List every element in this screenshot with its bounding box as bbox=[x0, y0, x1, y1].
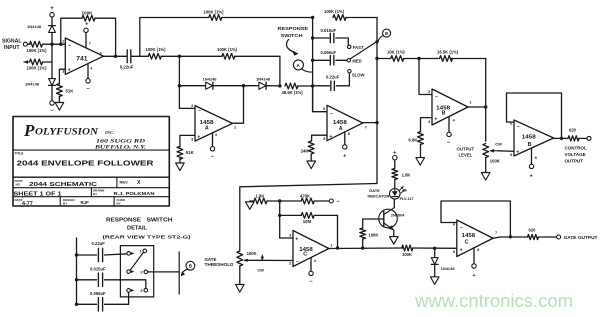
wire detail bus bbox=[76, 238, 78, 304]
wire pot to ground bbox=[485, 158, 487, 173]
wire base bbox=[363, 218, 384, 220]
pin 6 label U3B bbox=[510, 121, 520, 130]
svg-text:10M: 10M bbox=[303, 219, 312, 224]
wire pin3 to 6.8K bbox=[421, 118, 433, 132]
node hysteresis join bbox=[336, 246, 339, 249]
pin 2 label 1458A bbox=[191, 104, 201, 115]
logo address bbox=[94, 139, 147, 150]
wire 470K to terminal bbox=[314, 200, 329, 202]
wire up to top feedback line bbox=[140, 18, 209, 57]
node feedback junction bbox=[417, 57, 420, 60]
wire 16.5K to bus C bbox=[451, 58, 486, 60]
node X2 bbox=[278, 214, 281, 217]
svg-text:100K (1%): 100K (1%) bbox=[27, 66, 48, 71]
terminal gate output bbox=[557, 235, 561, 239]
label CHKD BY bbox=[117, 198, 126, 206]
resistor 10K (1%) bbox=[387, 49, 405, 61]
label DESIGN BY bbox=[63, 198, 75, 206]
svg-text:24K: 24K bbox=[301, 148, 310, 153]
title block rev divider bbox=[116, 177, 118, 188]
capacitor 0.22uF coupling bbox=[120, 50, 134, 70]
wire to 10M bbox=[280, 214, 302, 216]
svg-text:100K: 100K bbox=[402, 252, 412, 257]
svg-text:100K (1%): 100K (1%) bbox=[217, 47, 238, 52]
node bus cap2 bbox=[311, 59, 314, 62]
label REV X bbox=[120, 179, 142, 186]
svg-text:THRESHOLD: THRESHOLD bbox=[205, 262, 234, 267]
svg-text:R.J. POLKMAN: R.J. POLKMAN bbox=[114, 191, 155, 196]
resistor 6.8K to ground bbox=[408, 132, 423, 145]
node envelope bus bbox=[375, 121, 378, 124]
svg-text:FAST: FAST bbox=[353, 45, 364, 50]
wire pin2 first rectifier bbox=[179, 107, 195, 109]
power -15V lower clamp bbox=[50, 86, 54, 115]
op-amp U4B 1458 C gate bbox=[457, 220, 493, 257]
wire cap to SLOW contact bbox=[336, 73, 349, 86]
svg-text:+: + bbox=[50, 6, 54, 12]
svg-text:1: 1 bbox=[470, 101, 472, 105]
title block date dividers bbox=[60, 197, 114, 206]
svg-text:2: 2 bbox=[289, 262, 291, 266]
svg-text:1.8K: 1.8K bbox=[256, 193, 265, 198]
resistor 470K to -15 bbox=[300, 193, 314, 204]
svg-text:3: 3 bbox=[289, 233, 291, 237]
svg-text:CONTROL: CONTROL bbox=[565, 146, 587, 151]
resistor 1.8K threshold ref bbox=[254, 193, 267, 204]
svg-text:7: 7 bbox=[365, 126, 367, 130]
wire node to lower resistor row bbox=[51, 44, 53, 62]
wire rectifier input down bbox=[178, 56, 180, 108]
svg-text:8: 8 bbox=[477, 248, 479, 252]
node B circle top bbox=[378, 29, 390, 41]
svg-text:C: C bbox=[465, 240, 469, 246]
svg-text:2: 2 bbox=[191, 104, 193, 108]
svg-text:−: − bbox=[460, 225, 463, 231]
label RESPONSE SWITCH bbox=[278, 26, 309, 38]
wire row1 bbox=[77, 254, 97, 256]
diode 1N4148 upper clamp bbox=[27, 24, 55, 32]
pin 2 label 1458B bbox=[428, 90, 438, 100]
wire down to diode node bbox=[279, 56, 281, 86]
svg-text:INC.: INC. bbox=[104, 130, 114, 135]
svg-text:+: + bbox=[295, 236, 298, 242]
wire output to bus B bbox=[363, 122, 377, 124]
label DATE bbox=[15, 198, 23, 202]
switch contact 3L bbox=[127, 289, 134, 293]
ground below 24K bbox=[307, 154, 316, 169]
svg-text:B: B bbox=[442, 111, 446, 117]
svg-text:741: 741 bbox=[76, 55, 88, 62]
svg-text:1: 1 bbox=[234, 125, 236, 129]
text R J POLKMAN bbox=[114, 191, 155, 196]
ground below 6.8K bbox=[416, 144, 425, 165]
svg-text:−: − bbox=[517, 124, 520, 130]
svg-text:10K (1%): 10K (1%) bbox=[387, 49, 405, 54]
wire nodeX to 470K bbox=[280, 200, 302, 202]
diode 1N4148 rectifier D4 bbox=[256, 76, 271, 89]
resistor 620 gate bbox=[528, 227, 539, 239]
resistor 1.8K LED bbox=[392, 169, 411, 189]
wire row2 bbox=[77, 279, 97, 281]
svg-text:VOLTAGE: VOLTAGE bbox=[565, 152, 586, 157]
wire bus to pin6 bbox=[313, 86, 327, 112]
svg-text:5: 5 bbox=[453, 250, 455, 254]
power +15 LED bbox=[393, 150, 398, 168]
svg-text:4-77: 4-77 bbox=[22, 201, 33, 207]
wire 10M to output bbox=[314, 215, 337, 248]
svg-text:3: 3 bbox=[62, 70, 64, 74]
wire feedback U4B bbox=[441, 201, 510, 237]
svg-text:620: 620 bbox=[529, 227, 537, 232]
resistor 100K gate series bbox=[402, 245, 413, 257]
capacitor 0.22uF SLOW bbox=[326, 75, 340, 91]
resistor 620 output bbox=[568, 127, 579, 141]
title block sheet row line bbox=[13, 196, 169, 198]
node 741 output junction bbox=[114, 55, 117, 58]
marker CW gate pot bbox=[257, 255, 264, 273]
svg-text:51K: 51K bbox=[186, 150, 195, 155]
switch contact 3R bbox=[140, 288, 147, 293]
resistor 24K to ground bbox=[301, 141, 314, 154]
svg-text:BUFFALO, N.Y.: BUFFALO, N.Y. bbox=[94, 146, 147, 151]
svg-text:100K: 100K bbox=[82, 11, 94, 16]
wire to node bbox=[161, 55, 179, 57]
wire pin5 to 24K bbox=[312, 135, 327, 141]
svg-text:0.015uF: 0.015uF bbox=[321, 28, 337, 33]
wire output to bus C bbox=[468, 106, 486, 108]
wire 741 output bbox=[103, 55, 126, 57]
label TITLE bbox=[15, 151, 24, 155]
diode 1N4148 lower clamp bbox=[25, 79, 55, 87]
resistor 10M hysteresis bbox=[301, 213, 314, 225]
svg-text:−: − bbox=[296, 259, 299, 265]
svg-text:−: − bbox=[337, 199, 340, 205]
svg-text:3: 3 bbox=[428, 120, 430, 124]
wire U4B output bbox=[493, 237, 528, 238]
label OUTPUT LEVEL bbox=[457, 146, 475, 157]
switch wiper blade bbox=[350, 42, 376, 59]
resistor 100K (1%) input series bbox=[27, 41, 48, 53]
wire top feedback B bbox=[346, 17, 377, 19]
pin 8 supply U3B bbox=[529, 148, 536, 179]
capacitor 0.015uF FAST bbox=[321, 28, 337, 43]
title block drawn divider bbox=[90, 188, 92, 197]
svg-text:100K (1%): 100K (1%) bbox=[204, 10, 225, 15]
wire row3 bbox=[77, 303, 97, 305]
wire 620 to gate terminal bbox=[539, 236, 557, 238]
watermark www.cntronics.com bbox=[414, 290, 573, 311]
wire bus to 10K bbox=[377, 58, 391, 60]
op-amp U4A 1458 C comparator bbox=[293, 231, 329, 267]
svg-text:REV.: REV. bbox=[120, 179, 129, 184]
op-amp U3A 1458 B bbox=[432, 89, 468, 125]
svg-text:2: 2 bbox=[62, 40, 64, 44]
capacitor 0.015uF detail bbox=[90, 267, 106, 287]
wire U3B output bbox=[554, 137, 568, 139]
svg-text:−: − bbox=[68, 43, 71, 49]
text RJF bbox=[81, 200, 90, 205]
svg-text:620: 620 bbox=[569, 127, 577, 132]
svg-text:SIGNAL: SIGNAL bbox=[2, 39, 22, 45]
svg-text:BY: BY bbox=[63, 201, 67, 205]
switch contact SLOW bbox=[348, 70, 365, 78]
svg-text:0.015uF: 0.015uF bbox=[90, 267, 106, 272]
pin 1 output 1458A bbox=[234, 125, 236, 129]
svg-text:0.22uF: 0.22uF bbox=[92, 241, 106, 246]
wire node to D4 bbox=[244, 85, 280, 87]
text 2044 ENVELOPE FOLLOWER bbox=[17, 158, 155, 167]
svg-text:GATE OUTPUT: GATE OUTPUT bbox=[564, 235, 598, 240]
switch contact 2L bbox=[127, 270, 134, 274]
svg-text:5: 5 bbox=[323, 137, 325, 141]
switch box outline bbox=[120, 246, 153, 297]
node B circle bottom bbox=[181, 261, 195, 276]
svg-text:1N4148: 1N4148 bbox=[27, 24, 42, 29]
svg-text:48.5K (1%): 48.5K (1%) bbox=[282, 90, 304, 95]
wire input to R1 bbox=[27, 43, 30, 45]
arrow to switch bbox=[286, 40, 298, 56]
svg-text:−: − bbox=[50, 108, 54, 114]
wire row3 to contact bbox=[105, 292, 129, 304]
wire feedback up bbox=[61, 18, 82, 44]
wire wiper to comparator pin2 bbox=[246, 259, 293, 261]
ground gate diode bbox=[430, 277, 439, 285]
svg-text:100K: 100K bbox=[490, 159, 500, 164]
wire feedback U3B bbox=[507, 93, 562, 138]
svg-text:DETAIL: DETAIL bbox=[127, 225, 147, 231]
node detail row3 corner bbox=[75, 303, 78, 306]
ground below gate pot bbox=[236, 285, 245, 293]
wire D3 to node bbox=[213, 85, 244, 87]
svg-text:5: 5 bbox=[510, 153, 512, 157]
wire bus to cap 0.22 bbox=[313, 85, 330, 87]
node A circle bbox=[293, 60, 311, 72]
wire cap to MED contact bbox=[336, 59, 347, 61]
wire R1 to op-amp pin 2 bbox=[43, 43, 66, 45]
pin 3 label 1458A bbox=[191, 134, 200, 141]
svg-text:+: + bbox=[516, 150, 519, 156]
pin 7 supply 741 bbox=[84, 22, 91, 48]
op-amp U2B 1458 A bbox=[327, 105, 363, 140]
transistor Q1 2N3904 bbox=[379, 208, 406, 231]
pin 3 non-inverting input 741 bbox=[62, 68, 71, 74]
wire 10K to 16.5K bbox=[404, 58, 439, 60]
svg-text:B: B bbox=[528, 142, 532, 148]
wire collector to LED bbox=[393, 199, 395, 208]
svg-text:RESPONSE: RESPONSE bbox=[278, 26, 309, 31]
wire node to R and on bbox=[179, 55, 280, 57]
svg-text:INDICATOR: INDICATOR bbox=[368, 193, 390, 198]
svg-text:CW: CW bbox=[257, 268, 264, 273]
svg-text:BY: BY bbox=[93, 192, 97, 196]
pin 4 supply U4A bbox=[309, 258, 317, 286]
svg-text:2N3904: 2N3904 bbox=[391, 213, 405, 218]
resistor 51K rectifier to ground bbox=[177, 146, 195, 159]
svg-text:2044 SCHEMATIC: 2044 SCHEMATIC bbox=[29, 182, 97, 188]
title block part row line bbox=[13, 187, 169, 189]
pin 2 label U4A bbox=[289, 259, 299, 266]
pin 5 label bbox=[323, 134, 332, 141]
resistor 100K (1%) input rectifier bbox=[146, 47, 167, 59]
svg-text:51K: 51K bbox=[66, 89, 75, 94]
svg-text:#6: #6 bbox=[403, 189, 407, 193]
svg-text:+: + bbox=[329, 134, 332, 140]
svg-text:1.8K: 1.8K bbox=[402, 172, 411, 177]
switch contact FAST bbox=[348, 45, 364, 50]
node detail row2 bbox=[75, 278, 78, 281]
svg-text:+: + bbox=[68, 68, 71, 74]
wire 48.5K to bus A bbox=[298, 85, 313, 87]
svg-text:1N4148: 1N4148 bbox=[25, 82, 40, 87]
node base resistor join bbox=[361, 246, 364, 249]
wire to diode D3 bbox=[179, 85, 205, 87]
svg-text:100K: 100K bbox=[368, 233, 378, 238]
label GATE OUTPUT bbox=[564, 235, 598, 240]
terminal -15V ref bbox=[329, 199, 339, 205]
svg-text:C: C bbox=[303, 252, 307, 258]
svg-text:8: 8 bbox=[348, 132, 350, 136]
resistor 100K (1%) second series bbox=[217, 47, 238, 59]
pin 4 supply 1458B bbox=[447, 117, 456, 146]
label CONTROL VOLTAGE OUTPUT bbox=[565, 146, 587, 164]
op-amp U1 741 bbox=[65, 38, 103, 74]
resistor 100K (1%) top feedback A bbox=[204, 10, 225, 21]
node bus top T bbox=[311, 16, 314, 19]
resistor 51K to ground bbox=[57, 84, 75, 97]
resistor 16.5K (1%) bbox=[437, 49, 459, 61]
wire output up to diode node bbox=[233, 86, 244, 124]
svg-text:X: X bbox=[137, 180, 141, 186]
pin 1 output 1458B bbox=[470, 101, 472, 105]
ground 1.8K bbox=[246, 201, 255, 209]
svg-text:MED: MED bbox=[352, 58, 361, 63]
svg-text:SWITCH: SWITCH bbox=[147, 217, 173, 223]
title block company row line bbox=[13, 149, 169, 151]
pin 8 supply U4B bbox=[472, 248, 480, 279]
capacitor 0.22uF detail bbox=[92, 241, 106, 262]
op-amp U2A 1458 A bbox=[195, 106, 233, 142]
svg-text:www.cntronics.com: www.cntronics.com bbox=[414, 290, 573, 311]
node detail row1 bbox=[75, 253, 78, 256]
svg-text:RESPONSE: RESPONSE bbox=[106, 217, 142, 223]
svg-text:7: 7 bbox=[89, 42, 91, 46]
ground emitter bbox=[390, 237, 399, 245]
label GATE THRESHOLD bbox=[205, 257, 234, 267]
node rectifier input bbox=[178, 55, 181, 58]
terminal signal input bbox=[23, 42, 27, 46]
label FLV-117 bbox=[400, 189, 414, 202]
node diode row left bbox=[178, 84, 181, 87]
svg-text:CW: CW bbox=[495, 141, 502, 146]
wire row2 into box bbox=[105, 280, 146, 289]
label PART NO bbox=[15, 179, 23, 187]
svg-text:100K (1%): 100K (1%) bbox=[324, 9, 345, 14]
wire bus to cap 0.015 bbox=[313, 37, 330, 39]
text SHEET 1 OF 1 bbox=[14, 191, 62, 197]
label RESPONSE SWITCH DETAIL bbox=[103, 217, 192, 239]
switch wiper detail bbox=[130, 252, 143, 270]
pin 3 label U4A bbox=[289, 233, 298, 242]
svg-text:0.22uF: 0.22uF bbox=[120, 64, 134, 69]
LED gate indicator bbox=[390, 186, 406, 199]
node D4 cathode junction bbox=[278, 84, 281, 87]
title block frame bbox=[13, 117, 169, 207]
svg-text:1: 1 bbox=[331, 243, 333, 247]
svg-text:GATE: GATE bbox=[205, 257, 217, 262]
logo POLYFUSION INC bbox=[23, 121, 114, 140]
wire 100K to gate pin5 bbox=[413, 247, 457, 249]
wire bus B vertical bbox=[376, 18, 378, 184]
label DRAWN BY bbox=[93, 189, 104, 197]
resistor 100K feedback 741 bbox=[82, 11, 96, 22]
capacitor 0.056uF detail bbox=[90, 291, 106, 311]
node A bus bbox=[312, 18, 314, 112]
pin 6 label bbox=[323, 107, 333, 117]
svg-text:+: + bbox=[434, 117, 437, 123]
node U3B output bbox=[560, 137, 563, 140]
svg-text:NO: NO bbox=[16, 183, 21, 187]
svg-text:B: B bbox=[385, 31, 388, 36]
title block title row line bbox=[13, 176, 169, 178]
svg-text:1458: 1458 bbox=[522, 134, 536, 140]
svg-text:16.5K (1%): 16.5K (1%) bbox=[437, 49, 459, 54]
svg-text:A: A bbox=[205, 125, 209, 131]
svg-text:+: + bbox=[460, 248, 463, 254]
svg-text:100K (1%): 100K (1%) bbox=[27, 48, 48, 53]
svg-text:8: 8 bbox=[535, 156, 537, 160]
wire 1.8K to node X bbox=[267, 200, 280, 202]
terminal control voltage output bbox=[587, 136, 591, 140]
wire to lower diode bbox=[51, 62, 53, 79]
svg-text:100K (1%): 100K (1%) bbox=[146, 47, 167, 52]
svg-text:7: 7 bbox=[495, 231, 497, 235]
switch contact 1L bbox=[127, 252, 135, 256]
text 2044 SCHEMATIC bbox=[29, 182, 97, 188]
resistor 100K (1%) top feedback B bbox=[324, 9, 346, 20]
svg-text:100K: 100K bbox=[247, 251, 257, 256]
svg-text:470K: 470K bbox=[300, 193, 310, 198]
node between diodes bbox=[242, 84, 245, 87]
pin 4 supply 1458A bbox=[210, 133, 218, 160]
node U4B output bbox=[509, 235, 512, 238]
node gate diode bbox=[433, 247, 436, 250]
pin 7 output label bbox=[365, 126, 367, 130]
svg-text:−: − bbox=[435, 94, 438, 100]
wire diode to ground bbox=[434, 264, 436, 276]
label GATE INDICATOR bbox=[368, 188, 390, 198]
wire emitter to ground bbox=[393, 230, 395, 236]
pin 2 inverting input 741 bbox=[62, 40, 71, 50]
wire cap to stage 2 bbox=[132, 55, 149, 57]
svg-text:(REAR VIEW TYPE ST2-G): (REAR VIEW TYPE ST2-G) bbox=[103, 234, 192, 239]
svg-text:TITLE: TITLE bbox=[15, 151, 24, 155]
svg-text:2: 2 bbox=[428, 90, 430, 94]
wire node to upper diode bbox=[51, 31, 53, 44]
svg-text:3: 3 bbox=[191, 137, 193, 141]
switch contact 2R bbox=[140, 270, 147, 275]
node output level top bbox=[484, 105, 487, 108]
svg-text:+: + bbox=[197, 134, 200, 140]
wire nodeX to pin3 bbox=[280, 237, 293, 239]
node bus cap1 bbox=[311, 36, 314, 39]
svg-text:6: 6 bbox=[100, 51, 102, 55]
text 4-77 bbox=[22, 201, 33, 207]
node pin2 feedback junction bbox=[59, 43, 62, 46]
diode 1N4148 rectifier D3 bbox=[203, 76, 218, 89]
node bus B wiper bbox=[375, 40, 378, 43]
capacitor 0.056uF MED bbox=[321, 50, 337, 65]
svg-text:0.056uF: 0.056uF bbox=[90, 291, 106, 296]
